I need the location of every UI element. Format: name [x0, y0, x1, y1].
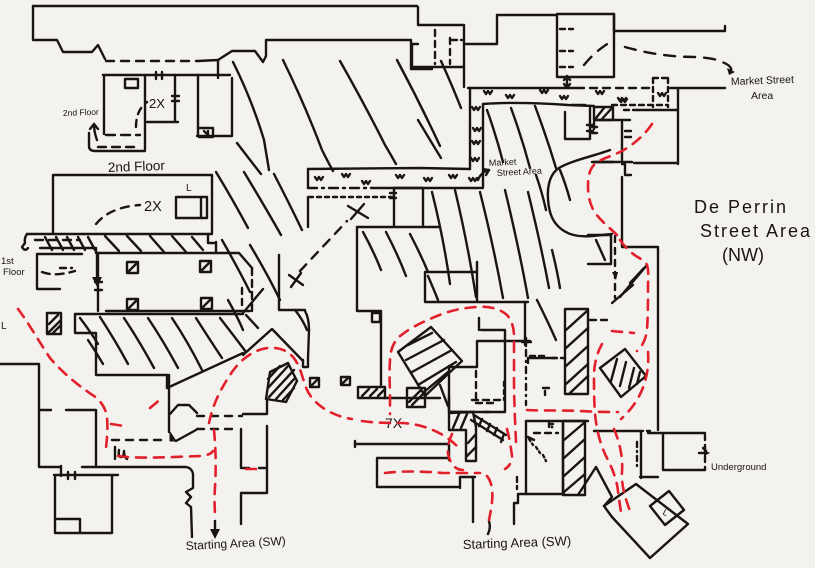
svg-text:Area: Area — [751, 90, 773, 102]
dashed path to Market Street Area — [584, 40, 731, 72]
mountain zigzag boundary — [243, 329, 303, 361]
dashed path on walkway — [35, 239, 80, 241]
svg-text:L: L — [186, 183, 192, 194]
red route: NE strand from market exit — [588, 124, 652, 235]
band NE boundary diagonals — [167, 289, 263, 388]
wall: street2 south boundary — [357, 227, 440, 398]
hatched pillar squares in F1 — [127, 262, 138, 273]
building: 2nd floor large hall — [53, 175, 212, 233]
dashed gap at band top — [241, 288, 243, 310]
hatched tower upper — [565, 309, 588, 394]
red route: stray dash near door — [246, 468, 257, 471]
red route: 7X east leg — [362, 421, 458, 447]
box: stall in central street — [565, 108, 590, 139]
door ticks on lower room — [68, 472, 75, 479]
red route: to tilted building B — [594, 344, 621, 512]
room: far east room — [622, 88, 678, 175]
red route: to tilted building A — [614, 429, 631, 514]
walkway chimney notch — [208, 234, 216, 253]
dashes above hatched L — [472, 399, 500, 401]
red route: drop to SW2 — [487, 476, 492, 520]
walls: south centre rooms — [514, 494, 564, 524]
svg-text:2nd Floor: 2nd Floor — [63, 107, 99, 118]
dashed east wall of room F1 — [251, 268, 253, 311]
mu door mark — [114, 447, 116, 459]
door ticks right of street — [625, 131, 631, 137]
hatched square at market street corner — [594, 107, 613, 120]
red route: funnel dash — [150, 398, 162, 408]
window box in room U3 with mark — [199, 128, 213, 137]
wall: mid-south vertical — [472, 477, 474, 522]
red route: stub west of NE strand — [612, 331, 634, 333]
hatched tail below diamond — [440, 385, 448, 406]
svg-text:Underground: Underground — [711, 462, 766, 473]
wall: De Perrin west wall — [622, 177, 658, 430]
wall from SW box to underground — [594, 430, 638, 432]
svg-text:L: L — [1, 321, 7, 332]
room: east small box with diagonal — [588, 235, 611, 264]
stair walls SW building — [241, 426, 267, 524]
dotted stair marks — [529, 439, 546, 461]
wall below hatched square — [594, 119, 630, 121]
wall: lower market corridor top — [308, 168, 470, 169]
red route: junction up ladder — [505, 429, 512, 469]
door ticks west wall F1 — [95, 282, 102, 290]
street B hatch strokes — [363, 106, 570, 340]
wall stub with tick — [528, 358, 556, 363]
hatched square A — [310, 378, 319, 387]
red route: big west arc via market — [390, 307, 516, 442]
room with X mark: walls — [357, 188, 440, 227]
band hatch strokes — [80, 315, 258, 370]
hatched tower lower — [563, 421, 585, 495]
underground box walls — [640, 433, 705, 478]
black dot — [551, 426, 554, 429]
door box on street2 wall — [372, 313, 380, 322]
walkway bottom edges — [40, 248, 223, 253]
bold wall: street east edge — [548, 150, 612, 236]
red route: legend corridor — [385, 472, 480, 474]
red route: arc over pentagon — [209, 348, 352, 423]
dashed inner floor second row — [98, 146, 134, 148]
walkway hook left end — [22, 234, 28, 250]
dashed black path upper SW — [112, 439, 165, 441]
ladder diagonal — [471, 415, 506, 442]
door ticks on top wall — [156, 72, 179, 101]
dash-dot vertical path NE — [525, 350, 527, 405]
hatched diamond NE — [600, 349, 646, 397]
room: west residence lower room — [54, 475, 118, 533]
wall: NE top wall to market street — [614, 14, 725, 31]
tick on box top — [549, 421, 553, 427]
wall: lower market corridor bottom dash-dot — [308, 187, 372, 189]
wall: roof rise to upper building — [198, 40, 432, 69]
wall: dashed roof section — [106, 60, 198, 62]
red route: ladder loop — [448, 434, 463, 470]
red route: descent to SW1 arrow — [214, 430, 216, 519]
walkway top edge — [27, 233, 212, 235]
black arrow start SW1 — [214, 521, 216, 530]
dashed wall stub top NE — [590, 319, 612, 321]
svg-text:2X: 2X — [149, 96, 165, 111]
hatched rect west of band — [47, 313, 61, 334]
underground arrow — [699, 452, 707, 454]
building: first floor hatched band — [75, 314, 243, 388]
map outer boundary top bar — [33, 5, 417, 7]
dashed corridor walls SW — [197, 415, 242, 417]
hatched square B — [341, 377, 350, 385]
wall: top-left outline — [33, 6, 105, 59]
svg-text:1st: 1st — [1, 256, 14, 267]
diagonal at De Perrin wall top — [612, 285, 633, 303]
tick above Starting2 — [488, 521, 490, 534]
door dashes in NE box — [560, 29, 573, 67]
arrow down from walkway — [96, 253, 98, 279]
corridor: legend E-shape — [355, 444, 475, 488]
wall: west long wall with bend — [96, 467, 193, 537]
hatched square D — [407, 388, 425, 407]
hatched rect C — [358, 387, 385, 398]
street corridor walls west of centre — [279, 255, 309, 367]
bold zigzag SE — [578, 467, 612, 506]
svg-text:2X: 2X — [144, 199, 162, 215]
room U3: right room — [197, 60, 232, 136]
dashed door south centre — [516, 477, 518, 489]
hatched pentagon kiosk — [266, 363, 297, 402]
tilted building diamond — [604, 484, 688, 558]
funnel door triangle — [170, 432, 176, 441]
room U2 walls and bottom — [147, 75, 178, 122]
wall: market street top — [468, 87, 577, 89]
wall: street left boundary at corridor — [307, 169, 309, 227]
outer U wall below room U1 — [89, 133, 145, 151]
room U1: upper-left 2nd floor room — [103, 75, 230, 150]
wall: market street left vertical — [469, 88, 471, 169]
dashed exit box market street — [612, 78, 668, 107]
building: NE box with dash marks — [557, 14, 614, 77]
hatch strokes inside SE street pocket — [620, 265, 647, 297]
dashed arrow to 2X — [136, 102, 147, 127]
walls: NE rooms under street — [425, 262, 528, 302]
door tick at corridor end — [390, 193, 396, 198]
funnel pinch walls — [169, 375, 197, 432]
building: west residence — [0, 364, 96, 476]
wall: market street inner — [483, 103, 594, 106]
red route: east branch — [527, 410, 618, 412]
red route: west horizontal — [118, 451, 213, 458]
door dashes inside top box — [435, 30, 450, 64]
svg-text:2nd Floor: 2nd Floor — [108, 158, 166, 175]
box: SW lower building — [526, 421, 588, 494]
svg-text:Market Street: Market Street — [731, 74, 794, 88]
building: dashed-interior box top — [412, 7, 464, 67]
svg-text:Floor: Floor — [3, 267, 25, 278]
wall: step to NE block — [464, 15, 557, 87]
svg-text:Street Area: Street Area — [700, 221, 812, 241]
dashed floor of room U1 — [106, 134, 140, 136]
connector double arrow below NE box — [566, 78, 568, 86]
box inside hall — [176, 197, 207, 218]
red route: west descent from L — [18, 309, 107, 448]
room: market street east room — [592, 122, 632, 162]
street A hatch strokes — [216, 60, 461, 330]
dotted wall south of corridor — [309, 196, 393, 198]
hatched diamond plaza — [398, 327, 462, 396]
dashed path in room F2 — [42, 271, 75, 274]
market stall w marks — [315, 90, 666, 184]
X marks and dashed diagonal — [348, 204, 368, 219]
dashed inner room SE — [476, 371, 496, 404]
dashed arrow curve to 2X lower — [96, 205, 140, 224]
dashes inside box — [534, 432, 558, 434]
dashed vertical door path — [614, 236, 616, 298]
room F2: small west room — [37, 254, 82, 289]
window box in room U1 — [125, 79, 138, 88]
corridor end walls — [241, 399, 267, 468]
walkway hatch strokes — [45, 236, 203, 252]
box: white room above legend — [449, 395, 474, 412]
inner tilted square — [650, 491, 684, 525]
svg-text:(NW): (NW) — [722, 245, 764, 265]
svg-text:De Perrin: De Perrin — [694, 197, 788, 217]
red route: NE descent east — [621, 352, 648, 419]
room F1: first floor hall — [98, 253, 252, 311]
hatched L-shape stairs — [449, 412, 476, 461]
